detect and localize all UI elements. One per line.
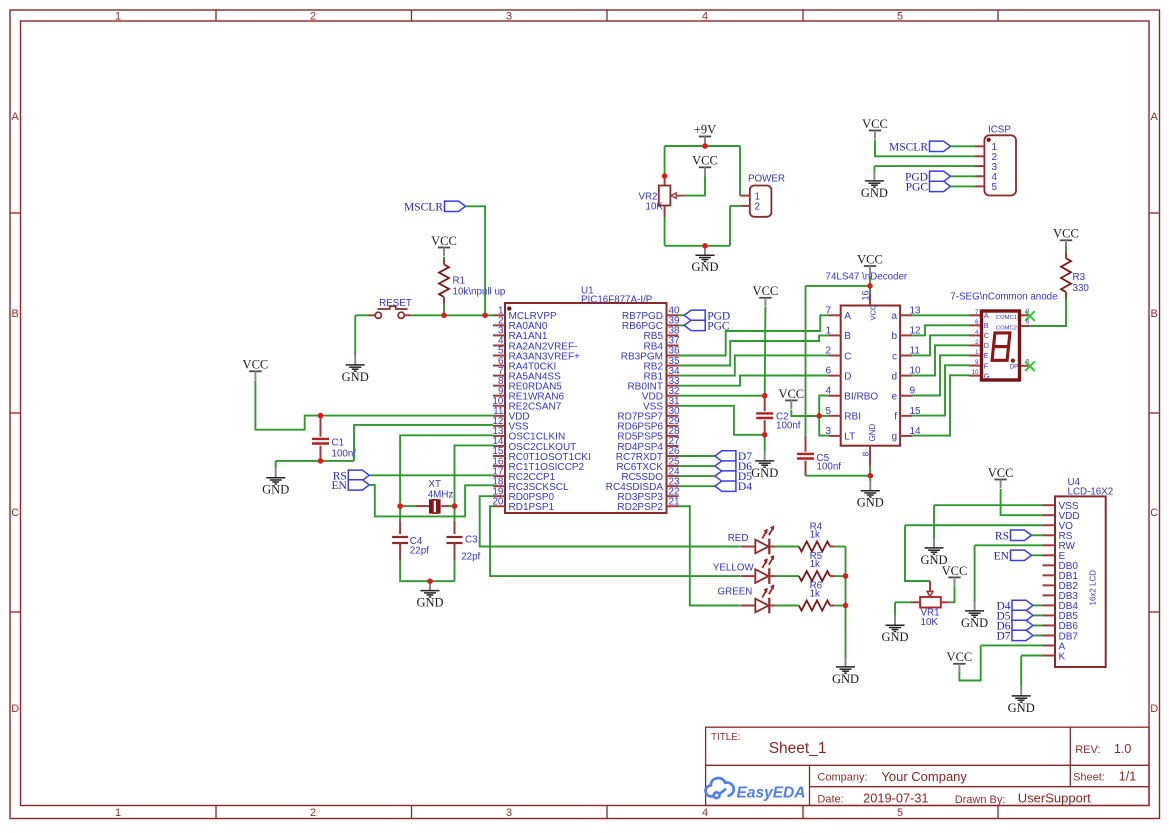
wire PGC stub — [679, 324, 685, 326]
pin U1.12 VSS — [493, 425, 505, 427]
pin U1.22 RD3PSP3 — [667, 495, 679, 497]
wire VR1 to VCC — [949, 586, 955, 602]
net flag D4 (LCD) — [996, 600, 1033, 612]
svg-text:1k: 1k — [810, 588, 820, 599]
wire D7 net — [679, 455, 715, 457]
power VCC R1 — [431, 234, 457, 256]
svg-text:D: D — [1150, 703, 1158, 715]
wire R6 to bus — [835, 605, 846, 607]
ground ICSP GND — [861, 172, 888, 200]
net flag D4 (U1) — [715, 481, 752, 493]
pin U1.5 RA3AN3VREF+ — [493, 355, 505, 357]
wire RD0 to RED led — [480, 496, 741, 546]
junction dec gnd — [868, 473, 874, 479]
pin U1.37 RB4 — [667, 344, 679, 346]
pin 7SEG.5 DP — [1021, 365, 1030, 367]
svg-text:EasyEDA: EasyEDA — [737, 785, 806, 802]
pin RESET.2 — [404, 314, 411, 316]
pin 74LS47.2 C — [829, 355, 841, 357]
wire dec pin16 — [869, 286, 871, 294]
wire RS to LCD — [1032, 534, 1043, 536]
svg-text:VCC: VCC — [862, 117, 888, 131]
svg-text:C: C — [844, 351, 851, 362]
power VCC 74LS47 — [857, 252, 883, 274]
junction C1 bottom — [318, 458, 324, 464]
pin 7SEG.9 COMC1 — [1021, 314, 1030, 316]
svg-text:100nf: 100nf — [332, 448, 357, 459]
svg-text:RS: RS — [995, 530, 1009, 542]
svg-text:8: 8 — [1026, 320, 1030, 326]
pin RESET.1 — [369, 314, 376, 316]
pin LCD.16 K — [1043, 655, 1056, 657]
wire LCD VDD — [1001, 489, 1043, 515]
power VCC (regulator out) — [692, 154, 718, 177]
junction R1/reset — [441, 313, 447, 319]
svg-text:A: A — [12, 111, 20, 123]
svg-text:10K: 10K — [921, 617, 939, 628]
pin 74LS47.16 — [869, 294, 871, 306]
pin VR2.2 — [664, 206, 666, 218]
svg-text:2: 2 — [825, 346, 831, 357]
wire VR2 bottom — [664, 217, 666, 246]
wire COMC2 — [1030, 325, 1066, 327]
junction XT right — [452, 503, 458, 509]
wire led gnd bus — [845, 547, 847, 658]
wire to XT left — [400, 505, 416, 507]
svg-text:Date:: Date: — [817, 794, 843, 806]
wire RB1 to decoder C — [679, 355, 829, 375]
pin U1.38 RB5 — [667, 334, 679, 336]
svg-text:B: B — [984, 321, 989, 330]
wire R4 to bus — [835, 546, 846, 548]
wire D4 to LCD — [1033, 604, 1043, 606]
pin 74LS47.3 LT — [829, 435, 841, 437]
wire BI/RBO tie — [819, 396, 828, 416]
wire VSS pin31 to C2 bottom — [679, 406, 765, 435]
pin C1.2 — [320, 446, 322, 461]
svg-text:RD2PSP2: RD2PSP2 — [617, 502, 663, 513]
power VCC R3 — [1053, 227, 1079, 249]
resistor R4 1k — [799, 542, 830, 552]
LCD module U4 LCD-16X2 — [1055, 496, 1106, 667]
wire VCC rail down C5 — [805, 286, 807, 436]
svg-text:g: g — [891, 432, 897, 443]
display 7-SEG common anode — [950, 291, 1058, 380]
ground XT GND — [416, 581, 443, 609]
svg-text:10K: 10K — [646, 202, 664, 213]
svg-text:E: E — [984, 351, 989, 360]
pin LCD.14 DB7 — [1043, 634, 1056, 636]
svg-text:GND: GND — [691, 260, 718, 274]
pin ICSP.5 — [975, 185, 984, 187]
pin U1.14 OSC2CLKOUT — [493, 445, 505, 447]
pin U1.27 RD4PSP4 — [667, 445, 679, 447]
svg-text:RBI: RBI — [844, 412, 861, 423]
wire D5 net — [679, 475, 715, 477]
wire VSS gnd drop — [933, 505, 935, 538]
pin U1.25 RC6TXCK — [667, 465, 679, 467]
svg-text:BI/RBO: BI/RBO — [844, 392, 878, 403]
pin 7SEG.2 D — [969, 344, 980, 346]
wire LCD RW — [975, 544, 1043, 546]
wire VDD pin32 to C2 — [679, 395, 765, 397]
wire led to R4 — [776, 546, 799, 548]
wire f to F — [912, 365, 969, 415]
resistor R5 1k — [799, 571, 830, 581]
pin C1.1 — [320, 416, 322, 437]
wire R1 to node — [443, 304, 445, 316]
svg-text:100nf: 100nf — [817, 462, 842, 473]
svg-text:EN: EN — [331, 480, 347, 492]
wire reset to pin1 — [411, 314, 485, 316]
wire EN to LCD — [1032, 554, 1043, 556]
net flag PGD (U1) — [684, 310, 730, 322]
pin U1.10 RE2CSAN7 — [493, 405, 505, 407]
svg-text:Your Company: Your Company — [881, 769, 967, 784]
pin U1.31 VSS — [667, 405, 679, 407]
junction C2 bottom — [762, 432, 768, 438]
svg-text:C: C — [1150, 507, 1158, 519]
ground LCD K GND — [1008, 687, 1035, 715]
pin U1.32 VDD — [667, 395, 679, 397]
pin 7SEG.7 A — [969, 314, 980, 316]
svg-text:GND: GND — [961, 616, 988, 630]
wire reset left — [355, 314, 368, 316]
ground RW GND — [961, 602, 988, 630]
wire ICSP gnd drop — [873, 166, 875, 171]
pin LCD.13 DB6 — [1043, 624, 1056, 626]
net flag D6 (U1) — [715, 461, 752, 473]
svg-text:8: 8 — [860, 452, 870, 457]
svg-text:G: G — [984, 371, 990, 380]
wire PGC to ICSP.5 — [951, 185, 976, 187]
junction R5 — [843, 573, 849, 579]
wire D5 to LCD — [1033, 614, 1043, 616]
pin LCD.10 DB3 — [1043, 594, 1056, 596]
svg-text:D: D — [11, 703, 19, 715]
pin 74LS47.5 RBI — [829, 415, 841, 417]
svg-text:2: 2 — [755, 202, 760, 213]
svg-text:Company:: Company: — [817, 772, 867, 784]
svg-text:GREEN: GREEN — [718, 587, 753, 598]
svg-text:16x2 LCD: 16x2 LCD — [1089, 570, 1098, 606]
pin VR2.1 — [664, 176, 666, 186]
svg-text:4MHz: 4MHz — [428, 490, 454, 501]
svg-text:B: B — [1151, 308, 1158, 320]
wire c to C — [912, 335, 969, 355]
LED LED GREEN — [718, 584, 776, 613]
svg-text:2019-07-31: 2019-07-31 — [863, 791, 928, 806]
wire VR1 gnd drop — [894, 602, 896, 616]
net flag RS (LCD) — [995, 530, 1032, 542]
wire A to VCC — [959, 645, 980, 680]
junction XT left — [397, 503, 403, 509]
ground 74LS47 GND — [857, 481, 884, 509]
wire led to R5 — [776, 575, 799, 577]
pin U1.29 RD6PSP6 — [667, 425, 679, 427]
net flag D5 (U1) — [715, 471, 752, 483]
svg-text:ICSP: ICSP — [988, 125, 1011, 136]
svg-text:COMC2: COMC2 — [996, 325, 1017, 331]
svg-text:VCC: VCC — [753, 284, 779, 298]
ground LED GND — [832, 658, 859, 686]
power VCC RBI — [778, 387, 804, 409]
wire dec gnd drop — [869, 476, 871, 482]
svg-text:d: d — [891, 371, 897, 382]
svg-text:VCC: VCC — [869, 304, 878, 320]
pin R1.1 — [443, 259, 445, 265]
svg-text:VCC: VCC — [988, 466, 1014, 480]
ground RESET GND — [342, 356, 369, 384]
pin LCD.9 DB2 — [1043, 584, 1056, 586]
wire D7 to LCD — [1033, 634, 1043, 636]
svg-text:1.0: 1.0 — [1114, 742, 1131, 756]
svg-text:5: 5 — [897, 807, 903, 819]
pin R4.2 — [830, 546, 835, 548]
wire EN to pin18 — [369, 485, 493, 517]
wire POWER pin2 a — [730, 205, 741, 207]
svg-text:RESET: RESET — [379, 298, 412, 309]
pin 74LS47.10 d — [900, 375, 912, 377]
pin U1.24 RC5SDO — [667, 475, 679, 477]
ground power GND — [691, 246, 718, 274]
svg-text:7-SEG\nCommon anode: 7-SEG\nCommon anode — [950, 291, 1058, 302]
pin U1.8 RE0RDAN5 — [493, 385, 505, 387]
svg-text:22pf: 22pf — [410, 546, 429, 557]
svg-text:TITLE:: TITLE: — [711, 732, 740, 743]
svg-text:10: 10 — [972, 370, 979, 376]
IC U1 PIC16F877A-I/P — [505, 286, 667, 514]
wire R3 to COMC2 — [1030, 299, 1066, 327]
svg-text:EN: EN — [994, 550, 1010, 562]
svg-text:GND: GND — [861, 186, 888, 200]
svg-text:VCC: VCC — [431, 234, 457, 248]
pin U1.20 RD1PSP1 — [493, 505, 505, 507]
svg-text:RD1PSP1: RD1PSP1 — [509, 502, 555, 513]
net flag D7 (LCD) — [996, 630, 1033, 642]
wire POWER pin1 — [739, 146, 741, 196]
svg-text:D: D — [984, 341, 989, 350]
svg-text:1k: 1k — [810, 559, 820, 570]
svg-text:A: A — [1151, 111, 1159, 123]
wire g to G — [912, 375, 969, 435]
capacitor C5 — [797, 454, 814, 459]
no-connect DP — [1025, 361, 1035, 371]
pin 74LS47.6 D — [829, 375, 841, 377]
svg-text:e: e — [891, 392, 897, 403]
svg-text:C: C — [11, 507, 19, 519]
power VCC ICSP — [862, 117, 888, 139]
pin ICSP.4 — [975, 175, 984, 177]
svg-text:VCC: VCC — [947, 650, 973, 664]
svg-text:C3: C3 — [465, 535, 478, 546]
pin LCD.7 DB0 — [1043, 564, 1056, 566]
LED LED YELLOW — [713, 555, 776, 584]
connector ICSP — [984, 125, 1016, 196]
pin R5.2 — [830, 575, 835, 577]
wire VCC to VR2 wiper — [685, 177, 706, 196]
svg-text:GND: GND — [857, 496, 884, 510]
wire VR1 left — [895, 601, 910, 603]
pin C3.2 — [454, 543, 456, 561]
power VCC C2 — [753, 284, 779, 306]
svg-text:22pf: 22pf — [461, 552, 480, 563]
wire OSC2 pin14 — [455, 445, 494, 506]
svg-text:b: b — [891, 331, 897, 342]
svg-text:VCC: VCC — [243, 358, 269, 372]
wire VCC to R1 — [443, 257, 445, 259]
svg-text:VCC: VCC — [942, 564, 968, 578]
pin 74LS47.11 c — [900, 355, 912, 357]
svg-text:3: 3 — [506, 11, 512, 23]
svg-text:20: 20 — [492, 496, 504, 507]
svg-text:C1: C1 — [332, 437, 345, 448]
IC 74LS47 Decoder — [826, 272, 908, 446]
pin 7SEG.1 E — [969, 355, 980, 357]
svg-text:Drawn By:: Drawn By: — [955, 794, 1006, 806]
title block — [706, 727, 1149, 805]
svg-text:4: 4 — [702, 11, 708, 23]
junction +9V — [702, 143, 708, 149]
junction dec VCC — [867, 283, 873, 289]
wire LT tie — [819, 416, 828, 436]
pin U1.28 RD5PSP5 — [667, 435, 679, 437]
pin ICSP.3 — [975, 165, 984, 167]
wire VCC to R3 — [1065, 247, 1067, 253]
pin LCD.1 VSS — [1043, 504, 1056, 506]
svg-text:UserSupport: UserSupport — [1018, 791, 1091, 806]
capacitor C4 — [392, 537, 408, 543]
svg-text:1: 1 — [115, 11, 121, 23]
svg-text:2: 2 — [310, 11, 316, 23]
pin U1.6 RA4T0CKI — [493, 365, 505, 367]
wire RB2 to decoder B — [679, 335, 829, 365]
wire to C4 — [399, 506, 401, 521]
wire VCC to dec 16 — [869, 276, 871, 286]
svg-text:PGC: PGC — [906, 181, 929, 193]
wire VCC rail left — [806, 285, 871, 287]
svg-text:COMC1: COMC1 — [996, 315, 1017, 321]
junction RBI — [816, 413, 822, 419]
wire VCC to ICSP.2 — [875, 140, 975, 156]
svg-text:GND: GND — [868, 424, 877, 442]
wire OSC1 pin13 — [400, 435, 493, 506]
svg-text:100nf: 100nf — [776, 421, 801, 432]
wire RS to pin17 — [369, 474, 493, 476]
wire LCD K — [1021, 655, 1042, 657]
svg-text:GND: GND — [1008, 701, 1035, 715]
pin 74LS47.14 g — [900, 435, 912, 437]
svg-text:F: F — [984, 361, 989, 370]
pin XT.1 — [416, 505, 429, 507]
capacitor C3 — [447, 537, 463, 543]
junction VR2 top — [662, 173, 668, 179]
svg-text:K: K — [1059, 651, 1066, 662]
resistor R6 1k — [799, 601, 830, 611]
potentiometer VR1 wiper arrow — [927, 581, 933, 597]
pin U1.30 RD7PSP7 — [667, 415, 679, 417]
svg-text:2: 2 — [310, 807, 316, 819]
svg-text:7: 7 — [825, 305, 831, 316]
capacitor C1 — [312, 439, 329, 444]
EasyEDA logo — [705, 778, 733, 798]
wire e to E — [912, 355, 969, 395]
svg-text:21: 21 — [669, 496, 681, 507]
pin VR1.1 — [910, 601, 920, 603]
pin LCD.8 DB1 — [1043, 574, 1056, 576]
net flag RS (U1) — [333, 470, 370, 482]
wire led to R6 — [776, 605, 799, 607]
pin U1.4 RA2AN2VREF- — [493, 344, 505, 346]
svg-text:GND: GND — [881, 630, 908, 644]
svg-text:POWER: POWER — [748, 174, 785, 185]
net flag MSCLR (reset) — [404, 201, 466, 213]
pin XT.2 — [441, 505, 448, 507]
pin LCD.6 E — [1043, 554, 1056, 556]
svg-text:RED: RED — [728, 533, 749, 544]
pin VR1.3 — [941, 601, 949, 603]
ground C1 GND — [262, 468, 289, 496]
pin R3.1 — [1065, 252, 1067, 258]
connector POWER — [748, 174, 785, 217]
pin R1.2 — [443, 297, 445, 304]
wire VCC to C2 — [764, 307, 767, 396]
pin ICSP.1 — [975, 145, 984, 147]
svg-text:YELLOW: YELLOW — [713, 563, 755, 574]
power VCC VR1 — [942, 564, 968, 586]
svg-text:Sheet:: Sheet: — [1073, 772, 1105, 784]
svg-text:A: A — [844, 311, 851, 322]
pin R6.2 — [830, 605, 835, 607]
wire D4 net — [679, 485, 715, 487]
power VCC C1 — [243, 358, 269, 380]
svg-text:10k\npull up: 10k\npull up — [453, 287, 506, 298]
svg-text:a: a — [891, 311, 897, 322]
pin C5.2 — [805, 461, 807, 476]
svg-text:c: c — [892, 351, 897, 362]
svg-text:GND: GND — [832, 672, 859, 686]
junction MSCLR/pin1 — [482, 313, 488, 319]
wire R5 to bus — [835, 575, 846, 577]
pin U1.2 RA0AN0 — [493, 324, 505, 326]
net flag D7 (U1) — [715, 451, 752, 463]
svg-text:GND: GND — [751, 466, 778, 480]
LED LED RED — [728, 525, 776, 554]
wire reset to gnd — [354, 315, 356, 355]
pin 74LS47.4 BI/RBO — [829, 395, 841, 397]
wire RD2 to GREEN led — [679, 506, 741, 605]
pin 74LS47.9 e — [900, 395, 912, 397]
pin LCD.3 VO — [1043, 524, 1056, 526]
net flag PGC (U1) — [684, 320, 730, 332]
wire ICSP.3 to GND — [874, 165, 975, 167]
ground LCD VSS GND — [920, 539, 947, 567]
net flag PGD (ICSP) — [905, 171, 951, 183]
pin ICSP.2 — [975, 155, 984, 157]
net flag EN (U1) — [331, 480, 369, 492]
pin C3.1 — [454, 521, 456, 534]
resistor R1 — [439, 265, 449, 298]
svg-text:REV:: REV: — [1075, 744, 1100, 756]
wire VO to VR1 wiper — [905, 525, 930, 581]
wire VCC to RBI — [791, 410, 819, 416]
wire a to A — [912, 314, 969, 316]
pin U1.1 MCLRVPP — [493, 314, 505, 316]
pin C5.1 — [805, 436, 807, 452]
svg-text:Sheet_1: Sheet_1 — [769, 740, 827, 757]
svg-text:R1: R1 — [453, 276, 466, 287]
wire LCD VSS — [934, 504, 1043, 506]
